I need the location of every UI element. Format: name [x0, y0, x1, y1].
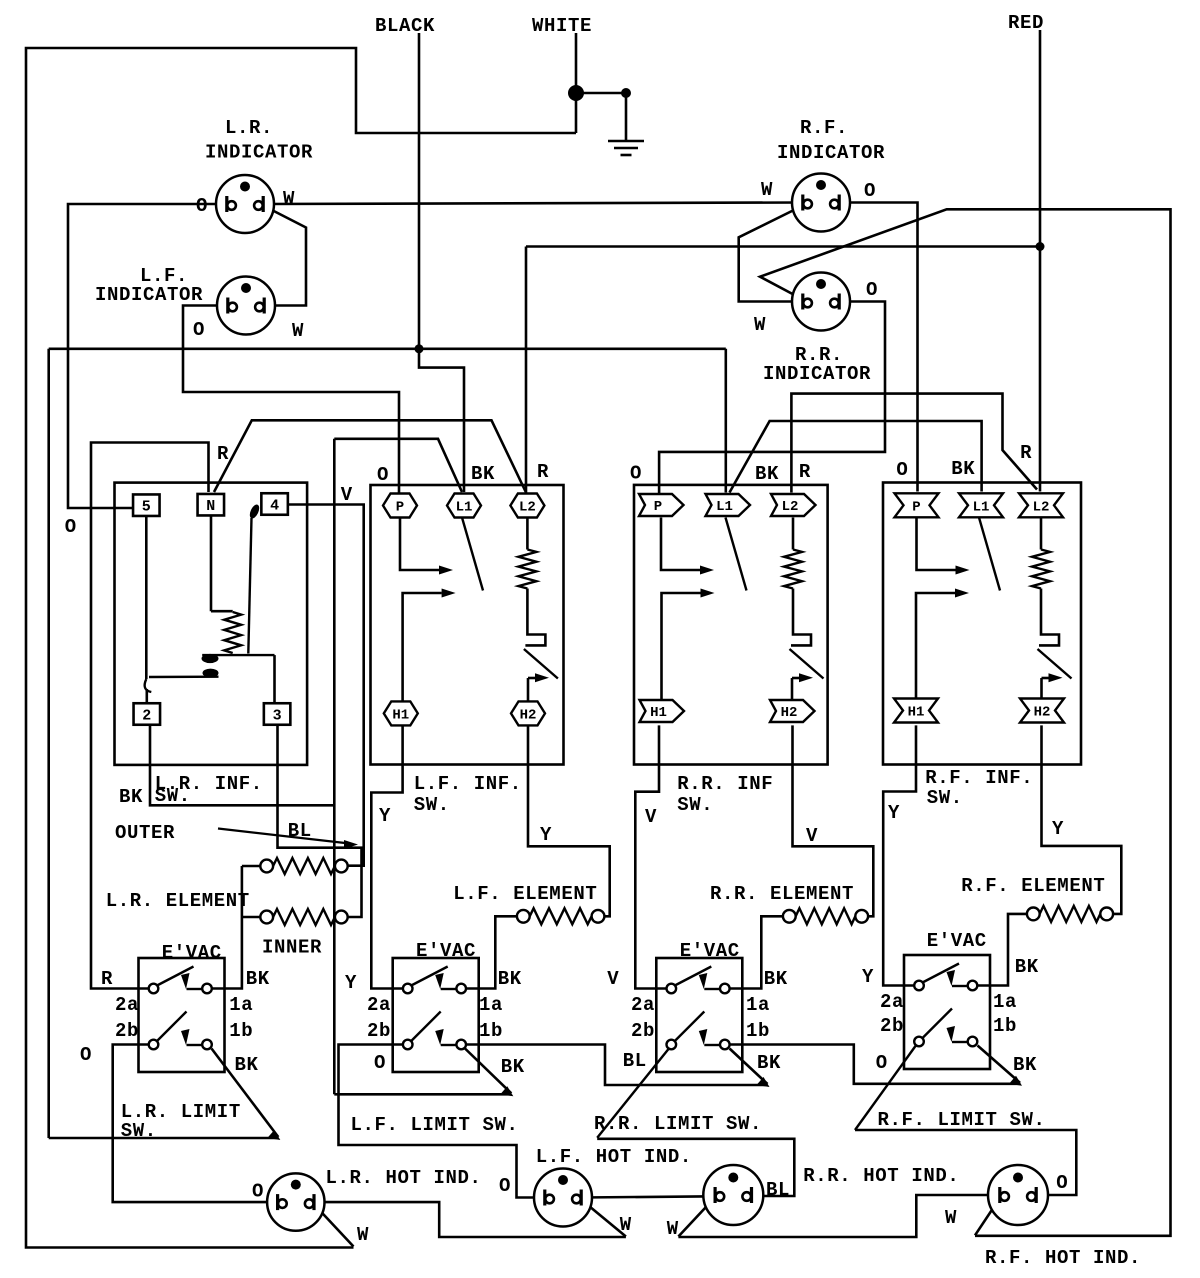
svg-text:BK: BK	[757, 1052, 781, 1074]
svg-text:5: 5	[142, 499, 151, 516]
svg-text:Y: Y	[540, 824, 552, 846]
svg-text:2a: 2a	[880, 991, 904, 1013]
svg-text:O: O	[374, 1052, 386, 1074]
svg-text:R: R	[101, 968, 113, 990]
svg-text:3: 3	[273, 708, 282, 725]
svg-text:L.F. ELEMENT: L.F. ELEMENT	[453, 883, 597, 905]
svg-text:P: P	[654, 499, 662, 515]
svg-text:H1: H1	[650, 705, 667, 721]
svg-text:L2: L2	[519, 500, 536, 516]
svg-text:O: O	[1056, 1172, 1068, 1194]
svg-text:L1: L1	[973, 499, 990, 515]
svg-text:R.F. LIMIT SW.: R.F. LIMIT SW.	[878, 1109, 1046, 1131]
svg-text:1b: 1b	[746, 1020, 770, 1042]
svg-text:R: R	[537, 461, 549, 483]
svg-text:BK: BK	[1015, 956, 1039, 978]
svg-text:V: V	[645, 806, 657, 828]
svg-text:L1: L1	[456, 500, 473, 516]
svg-text:Y: Y	[888, 802, 900, 824]
svg-text:Y: Y	[379, 805, 391, 827]
svg-text:R: R	[1020, 442, 1032, 464]
svg-text:R: R	[799, 461, 811, 483]
svg-text:1a: 1a	[746, 994, 770, 1016]
svg-text:W: W	[754, 314, 766, 336]
svg-text:1b: 1b	[479, 1020, 503, 1042]
svg-text:L.R. ELEMENT: L.R. ELEMENT	[106, 890, 250, 912]
svg-text:1a: 1a	[993, 991, 1017, 1013]
svg-text:BK: BK	[1013, 1054, 1037, 1076]
svg-text:L.F. LIMIT SW.: L.F. LIMIT SW.	[351, 1114, 519, 1136]
svg-text:W: W	[357, 1224, 369, 1246]
svg-text:H1: H1	[392, 707, 409, 723]
svg-text:W: W	[945, 1207, 957, 1229]
svg-text:BK: BK	[501, 1056, 525, 1078]
svg-text:O: O	[864, 180, 876, 202]
svg-text:2b: 2b	[880, 1015, 904, 1037]
svg-text:L1: L1	[716, 499, 733, 515]
svg-text:SW.: SW.	[414, 794, 450, 816]
svg-text:2a: 2a	[367, 994, 391, 1016]
svg-text:INNER: INNER	[262, 937, 322, 959]
svg-text:R.R. INF: R.R. INF	[677, 773, 773, 795]
svg-text:Y: Y	[862, 966, 874, 988]
svg-text:H1: H1	[908, 705, 925, 721]
svg-text:H2: H2	[781, 705, 798, 721]
svg-text:R.F.: R.F.	[800, 117, 848, 139]
svg-text:L2: L2	[782, 499, 799, 515]
svg-text:O: O	[896, 459, 908, 481]
svg-text:V: V	[341, 484, 353, 506]
svg-text:2a: 2a	[631, 994, 655, 1016]
svg-text:OUTER: OUTER	[115, 822, 175, 844]
svg-text:INDICATOR: INDICATOR	[777, 142, 885, 164]
svg-text:O: O	[876, 1052, 888, 1074]
svg-text:V: V	[806, 825, 818, 847]
svg-text:E'VAC: E'VAC	[680, 940, 740, 962]
svg-text:O: O	[630, 463, 642, 485]
svg-text:R.R. LIMIT SW.: R.R. LIMIT SW.	[594, 1113, 762, 1135]
svg-text:L.F. HOT IND.: L.F. HOT IND.	[536, 1146, 692, 1168]
svg-text:2b: 2b	[367, 1020, 391, 1042]
svg-text:L.R.: L.R.	[225, 117, 273, 139]
svg-text:BK: BK	[498, 968, 522, 990]
svg-text:BK: BK	[471, 463, 495, 485]
svg-text:1a: 1a	[229, 994, 253, 1016]
svg-text:O: O	[499, 1175, 511, 1197]
svg-text:4: 4	[270, 498, 279, 515]
svg-text:BL: BL	[288, 820, 312, 842]
svg-text:O: O	[193, 319, 205, 341]
svg-text:E'VAC: E'VAC	[416, 940, 476, 962]
svg-text:E'VAC: E'VAC	[927, 930, 987, 952]
svg-text:W: W	[761, 179, 773, 201]
svg-text:2b: 2b	[115, 1020, 139, 1042]
svg-text:BL: BL	[623, 1050, 647, 1072]
svg-text:H2: H2	[520, 707, 537, 723]
svg-text:W: W	[283, 188, 295, 210]
svg-text:1b: 1b	[229, 1020, 253, 1042]
svg-text:R.R. HOT IND.: R.R. HOT IND.	[803, 1165, 959, 1187]
svg-text:SW.: SW.	[155, 785, 191, 807]
svg-text:BK: BK	[755, 463, 779, 485]
svg-text:L.F. INF.: L.F. INF.	[414, 773, 522, 795]
svg-text:2a: 2a	[115, 994, 139, 1016]
svg-text:1b: 1b	[993, 1015, 1017, 1037]
svg-text:O: O	[377, 464, 389, 486]
svg-text:P: P	[396, 500, 404, 516]
svg-text:BK: BK	[764, 968, 788, 990]
svg-text:SW.: SW.	[121, 1120, 157, 1142]
svg-text:R: R	[217, 443, 229, 465]
svg-text:RED: RED	[1008, 12, 1044, 34]
svg-text:Y: Y	[345, 972, 357, 994]
svg-text:O: O	[866, 279, 878, 301]
svg-text:R.F. INF.: R.F. INF.	[925, 767, 1033, 789]
svg-text:1a: 1a	[479, 994, 503, 1016]
svg-text:SW.: SW.	[677, 794, 713, 816]
svg-text:E'VAC: E'VAC	[162, 942, 222, 964]
svg-text:BL: BL	[766, 1179, 790, 1201]
svg-text:R.F. ELEMENT: R.F. ELEMENT	[961, 875, 1105, 897]
svg-text:BK: BK	[119, 786, 143, 808]
svg-text:2b: 2b	[631, 1020, 655, 1042]
svg-text:BK: BK	[951, 458, 975, 480]
svg-text:L2: L2	[1033, 499, 1050, 515]
svg-text:R.F. HOT IND.: R.F. HOT IND.	[985, 1247, 1141, 1269]
svg-text:O: O	[65, 516, 77, 538]
svg-text:N: N	[206, 498, 215, 515]
svg-text:WHITE: WHITE	[532, 15, 592, 37]
svg-text:INDICATOR: INDICATOR	[205, 142, 313, 164]
svg-text:P: P	[912, 499, 920, 515]
svg-text:R.R. ELEMENT: R.R. ELEMENT	[710, 883, 854, 905]
svg-text:W: W	[620, 1214, 632, 1236]
svg-text:O: O	[80, 1044, 92, 1066]
svg-text:BLACK: BLACK	[375, 15, 435, 37]
svg-text:Y: Y	[1052, 818, 1064, 840]
svg-text:BK: BK	[235, 1054, 259, 1076]
svg-text:INDICATOR: INDICATOR	[763, 363, 871, 385]
svg-text:V: V	[607, 968, 619, 990]
svg-text:W: W	[292, 320, 304, 342]
svg-text:BK: BK	[246, 968, 270, 990]
svg-text:2: 2	[142, 708, 151, 725]
svg-text:O: O	[252, 1181, 264, 1203]
svg-text:SW.: SW.	[927, 787, 963, 809]
svg-text:W: W	[667, 1218, 679, 1240]
svg-text:O: O	[196, 195, 208, 217]
svg-text:INDICATOR: INDICATOR	[95, 284, 203, 306]
svg-text:H2: H2	[1034, 705, 1051, 721]
svg-text:L.R. HOT IND.: L.R. HOT IND.	[326, 1167, 482, 1189]
